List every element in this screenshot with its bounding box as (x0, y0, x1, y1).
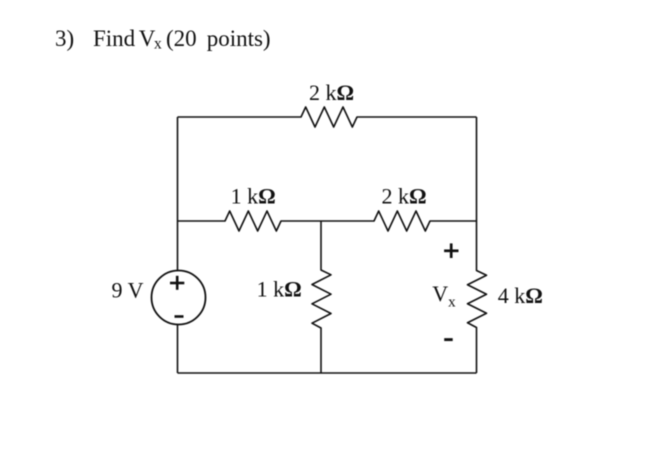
svg-text:2 kΩ: 2 kΩ (382, 184, 427, 209)
svg-text:points): points) (207, 26, 271, 51)
svg-text:1 kΩ: 1 kΩ (257, 277, 302, 302)
svg-text:4 kΩ: 4 kΩ (498, 283, 543, 308)
svg-text:1 kΩ: 1 kΩ (231, 184, 276, 209)
svg-text:Find: Find (93, 26, 136, 51)
svg-text:x: x (154, 35, 162, 52)
svg-text:9 V: 9 V (112, 277, 144, 302)
svg-text:3): 3) (55, 26, 74, 51)
svg-text:(20: (20 (166, 26, 197, 51)
svg-text:2 kΩ: 2 kΩ (309, 80, 354, 105)
